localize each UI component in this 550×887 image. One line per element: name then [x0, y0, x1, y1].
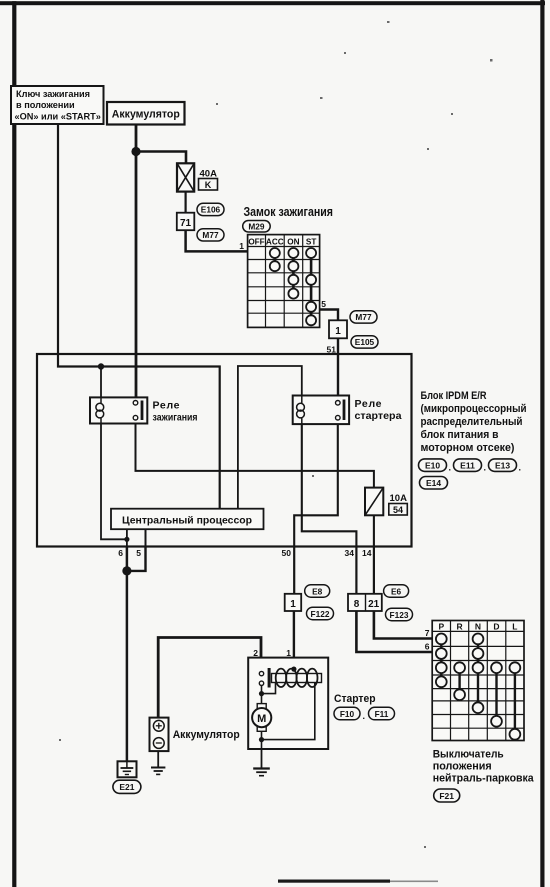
wire: ignition key signal to CPU	[58, 124, 220, 509]
starter solenoid coil	[272, 667, 322, 688]
ignition switch contact table M29	[248, 235, 320, 328]
svg-text:1: 1	[335, 326, 341, 337]
svg-text:5: 5	[321, 299, 326, 309]
svg-text:1: 1	[239, 241, 244, 251]
svg-text:2: 2	[253, 648, 258, 658]
pin 6 label (switch)	[425, 642, 430, 652]
svg-text:6: 6	[425, 642, 430, 652]
wire: pin 14 to connector 21	[373, 546, 375, 594]
svg-text:.: .	[449, 463, 452, 473]
wire: connector 8 to switch pin 6	[356, 611, 432, 652]
svg-text:Реле: Реле	[355, 398, 382, 410]
svg-text:L: L	[512, 622, 517, 632]
wire: CPU pin 5	[145, 529, 147, 546]
svg-text:P: P	[438, 622, 444, 632]
svg-text:F10: F10	[340, 709, 355, 719]
ground: starter	[253, 749, 270, 776]
wire: contact lower pin to motor	[261, 686, 263, 704]
svg-text:F123: F123	[390, 610, 409, 620]
pin 5 label (ignition switch)	[321, 299, 326, 309]
svg-text:.: .	[363, 711, 366, 721]
svg-text:ST: ST	[306, 238, 316, 247]
boxed label 54	[389, 504, 408, 516]
svg-text:стартера: стартера	[355, 410, 402, 422]
oval E8	[305, 585, 330, 598]
box: battery (bottom)	[150, 718, 169, 752]
node: motor bottom junction	[259, 737, 264, 742]
svg-text:Замок зажигания: Замок зажигания	[244, 204, 334, 219]
svg-text:Реле: Реле	[153, 400, 180, 412]
svg-text:зажигания: зажигания	[153, 412, 198, 424]
svg-text:«ON» или «START»: «ON» или «START»	[15, 112, 101, 122]
svg-text:R: R	[457, 622, 463, 632]
wire: relay contact to 10A fuse	[136, 405, 374, 488]
wire: battery to starter pin 2	[158, 638, 261, 718]
wire: connector 21 to switch pin 7	[374, 611, 432, 639]
svg-text:M29: M29	[248, 222, 265, 232]
starter motor box	[248, 658, 328, 749]
svg-text:Стартер: Стартер	[334, 693, 376, 705]
oval F11	[369, 707, 395, 720]
wire: pin 5 joins pin 6	[127, 546, 146, 571]
svg-text:.: .	[519, 463, 522, 473]
wire: pin 6 to ground E21	[126, 546, 129, 761]
pin 51 label	[327, 345, 337, 355]
connector 1 (M77/E105)	[329, 320, 347, 338]
wire: pin 50 to connector then starter pin 1	[293, 546, 296, 669]
svg-text:распределительный: распределительный	[421, 416, 523, 428]
label: Реле зажигания	[153, 400, 198, 424]
svg-text:50: 50	[282, 548, 292, 558]
svg-text:N: N	[475, 622, 481, 632]
IPDM E/R block outline	[37, 354, 412, 547]
svg-text:.: .	[484, 463, 487, 473]
svg-text:E11: E11	[460, 461, 475, 471]
oval E11	[454, 459, 487, 473]
svg-text:E13: E13	[495, 461, 510, 471]
svg-text:E106: E106	[201, 205, 221, 215]
label: Аккумулятор (bottom)	[173, 729, 240, 741]
wire: starter relay coil to pin 34	[302, 424, 357, 546]
svg-text:5: 5	[136, 548, 141, 558]
wire: motor to bottom junction	[261, 731, 263, 749]
svg-text:E10: E10	[425, 461, 440, 471]
label: ignition switch title	[244, 204, 334, 219]
oval M29	[243, 221, 271, 233]
pin 2 label (starter)	[253, 648, 258, 658]
scan speck marks	[59, 21, 493, 848]
svg-text:E6: E6	[391, 586, 402, 596]
svg-text:8: 8	[354, 599, 360, 610]
relay: ignition relay	[90, 397, 147, 423]
svg-text:(микропроцессорный: (микропроцессорный	[421, 403, 527, 415]
fusible link 40A	[177, 163, 217, 191]
svg-text:M: M	[257, 713, 266, 725]
svg-text:6: 6	[118, 548, 123, 558]
svg-text:10A: 10A	[390, 493, 408, 504]
wire: CPU bottom to junction/pin 6	[126, 529, 128, 546]
oval E6	[384, 585, 409, 598]
wire: coil right end return	[262, 683, 315, 740]
label: neutral-park switch	[433, 749, 535, 785]
oval E14	[420, 477, 448, 490]
wire: 10A fuse to pin 14	[373, 515, 375, 546]
svg-text:F122: F122	[311, 609, 330, 619]
pin 7 label (switch)	[425, 628, 430, 638]
svg-text:71: 71	[180, 218, 192, 229]
svg-text:E14: E14	[426, 478, 441, 488]
node: coil return / CPU junction	[124, 537, 129, 542]
svg-text:Ключ зажигания: Ключ зажигания	[16, 89, 90, 99]
relay: starter relay	[293, 396, 349, 425]
svg-text:ACC: ACC	[266, 238, 284, 247]
wire: starter relay contact to pin 50	[294, 405, 338, 546]
svg-text:F11: F11	[375, 709, 389, 719]
wire: ignition switch pin 5 to connector 1	[320, 310, 338, 321]
node: battery/fuse junction	[131, 147, 140, 156]
svg-text:M77: M77	[202, 230, 219, 240]
neutral-park switch table F21	[432, 621, 524, 741]
svg-text:D: D	[493, 622, 499, 632]
svg-text:F21: F21	[439, 791, 454, 801]
wire: CPU to starter relay coil	[238, 366, 302, 509]
oval F123	[386, 608, 413, 621]
label: Реле стартера	[355, 398, 402, 422]
svg-text:блок питания в: блок питания в	[421, 429, 499, 441]
oval E13	[489, 459, 522, 473]
wire: ignition relay coil return to pin 6	[101, 424, 127, 540]
node: branch to ignition relay coil	[98, 363, 104, 397]
svg-text:Центральный процессор: Центральный процессор	[122, 515, 252, 527]
svg-text:моторном отсеке): моторном отсеке)	[421, 442, 515, 454]
ground box E21	[118, 761, 137, 777]
node: pins 5/6 junction	[122, 566, 131, 575]
pin 1 label (ignition switch)	[239, 241, 244, 251]
svg-text:21: 21	[368, 599, 380, 610]
svg-text:34: 34	[345, 548, 355, 558]
oval E105	[351, 336, 378, 348]
oval M77 (lower)	[350, 311, 377, 323]
connector 71	[177, 213, 195, 231]
oval F122	[307, 607, 334, 620]
box: ignition key note	[11, 86, 104, 124]
svg-text:E105: E105	[355, 337, 375, 347]
wire: fusible link to connector 71	[185, 192, 187, 213]
svg-text:54: 54	[393, 505, 403, 515]
svg-text:Выключатель: Выключатель	[433, 749, 504, 761]
oval E106	[197, 203, 224, 215]
starter contact pins	[259, 668, 270, 688]
svg-text:положения: положения	[433, 761, 492, 773]
box: central processor	[111, 509, 264, 530]
svg-text:OFF: OFF	[248, 238, 264, 247]
svg-text:7: 7	[425, 628, 430, 638]
pin 1 label (starter)	[286, 648, 291, 658]
wire: battery main feed	[135, 124, 138, 403]
node: starter contact/motor junction	[259, 691, 264, 696]
ground: battery negative	[151, 751, 165, 774]
svg-text:E8: E8	[312, 586, 323, 596]
wire: junction to fusible link	[136, 152, 186, 164]
svg-text:1: 1	[290, 599, 296, 610]
svg-text:M77: M77	[355, 312, 372, 322]
label: IPDM block description	[421, 390, 527, 454]
connector 8|21 (E6/F123)	[348, 594, 382, 611]
ignition switch contact strips and circles	[270, 248, 316, 325]
oval E21	[113, 780, 141, 793]
svg-text:E21: E21	[119, 782, 134, 792]
starter motor M	[252, 704, 271, 732]
label: Стартер	[334, 693, 376, 705]
oval E10	[419, 459, 452, 473]
boxed label K	[199, 179, 218, 191]
wire: contact to coil left end	[262, 683, 276, 694]
box: battery (top)	[107, 102, 185, 125]
oval F21	[434, 789, 460, 802]
oval F10	[334, 707, 365, 721]
svg-text:K: K	[205, 180, 212, 190]
svg-text:в положении: в положении	[16, 100, 75, 110]
wire: pin 34 to connector 8	[355, 546, 357, 594]
svg-text:Аккумулятор: Аккумулятор	[112, 109, 180, 121]
pin labels under IPDM box	[118, 548, 371, 558]
oval M77 (upper)	[197, 229, 224, 241]
neutral-park switch strips and circles	[436, 634, 520, 740]
svg-text:14: 14	[362, 548, 372, 558]
svg-text:1: 1	[286, 648, 291, 658]
svg-text:нейтраль-парковка: нейтраль-парковка	[433, 773, 535, 785]
svg-text:Аккумулятор: Аккумулятор	[173, 729, 240, 741]
wire: connector 71 to ignition switch pin 1	[186, 230, 248, 251]
bottom artifact line	[278, 880, 438, 883]
svg-text:Блок IPDM E/R: Блок IPDM E/R	[421, 390, 487, 402]
connector 1 (E8/F122)	[285, 594, 302, 611]
fuse 10A	[365, 488, 407, 516]
wire 51: connector 1 to starter relay contact	[337, 338, 339, 403]
svg-text:ON: ON	[287, 238, 299, 247]
